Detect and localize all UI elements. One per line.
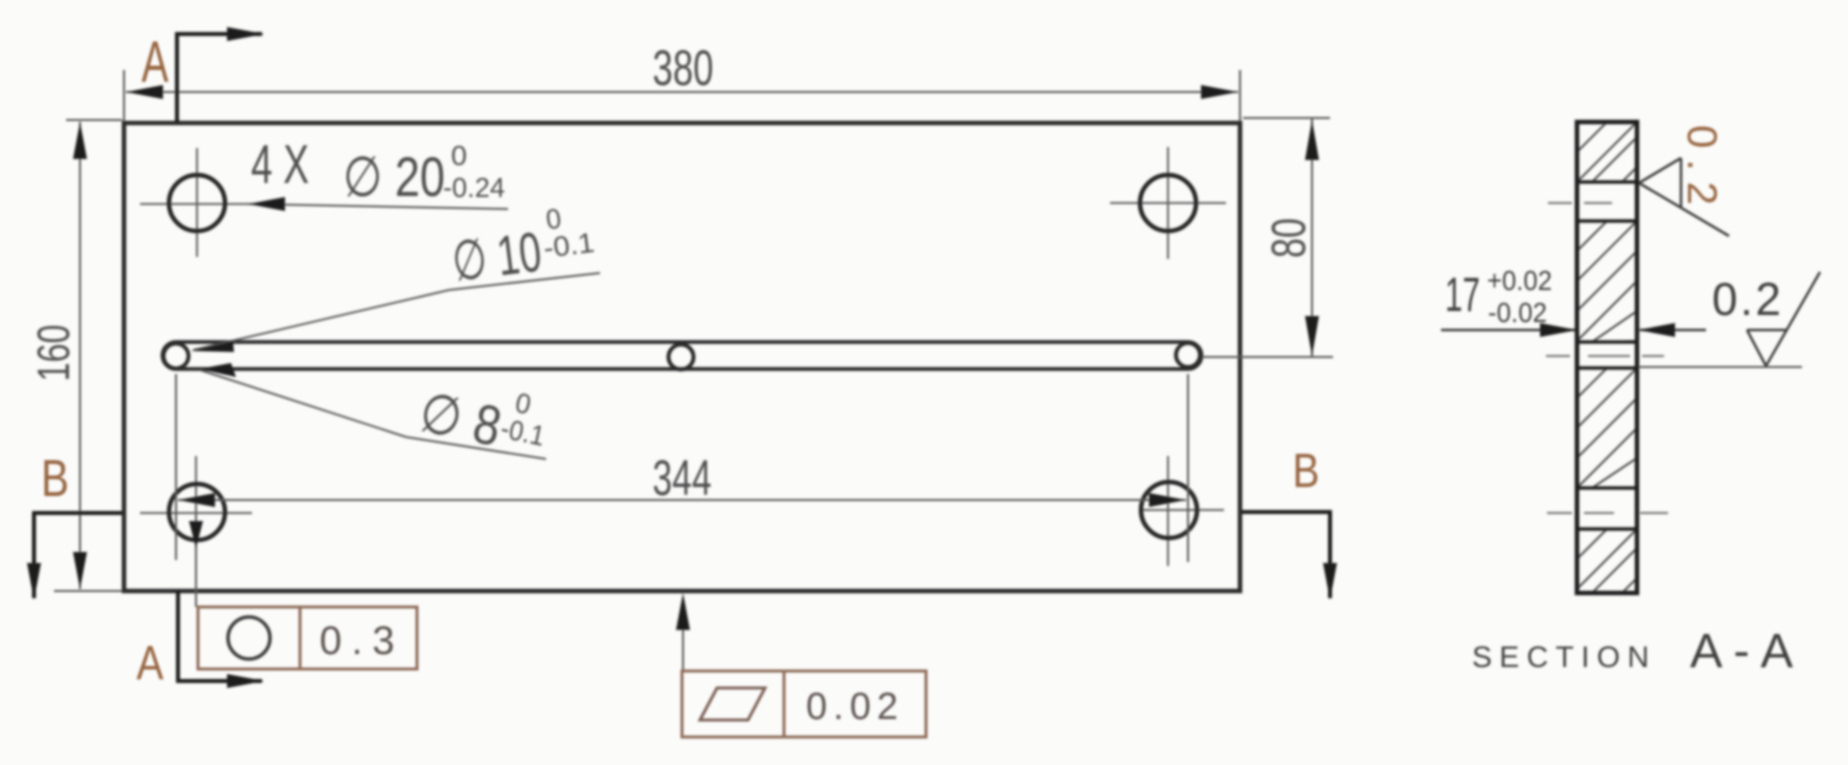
dimension 344 arrow left	[178, 493, 215, 507]
section bar hatch second block	[1577, 221, 1637, 342]
hole bottom-right centerlines	[1140, 456, 1224, 566]
dimension 160 line	[79, 122, 81, 589]
dimension 380 arrow right	[1201, 85, 1238, 99]
dimension 344 extension left	[175, 374, 177, 560]
dimension 344 line	[178, 499, 1186, 501]
section cut A top arrow	[227, 27, 264, 41]
svg-text:∅ 10: ∅ 10	[449, 220, 545, 293]
leader dia10 line	[193, 290, 449, 350]
leader dia10 underline	[449, 273, 600, 290]
plate outline	[124, 123, 1240, 591]
svg-text:-0.02: -0.02	[1488, 297, 1547, 328]
flatness tolerance frame	[682, 671, 926, 737]
svg-text:+0.02: +0.02	[1487, 265, 1552, 296]
flatness frame leader line	[682, 598, 684, 671]
section centerline slot	[1546, 355, 1664, 357]
dimension 17 line left	[1441, 329, 1575, 332]
svg-text:-0.24: -0.24	[443, 172, 505, 203]
section cut B right line	[1242, 512, 1330, 598]
section cut A top line	[177, 34, 262, 122]
leader dia8 underline	[406, 437, 546, 459]
section cut B left line	[34, 513, 122, 598]
roundness frame leader arrow	[189, 521, 203, 548]
section centerline top hole	[1548, 202, 1612, 204]
roundness tolerance frame	[198, 607, 417, 669]
dimension 380 extension line right	[1239, 70, 1241, 121]
svg-text:-0.1: -0.1	[542, 227, 596, 264]
flatness symbol parallelogram	[700, 688, 765, 720]
section bar hole band top edges	[1577, 180, 1637, 184]
hole bottom-left	[169, 484, 225, 540]
svg-text:A - A: A - A	[1690, 625, 1793, 678]
svg-text:380: 380	[653, 40, 714, 96]
dimension 160 extension top	[66, 119, 122, 121]
section cut A bottom arrow	[227, 674, 264, 688]
hole top-left centerlines	[140, 148, 256, 257]
hole top-left	[169, 175, 225, 231]
slot left end hole	[164, 344, 189, 369]
dimension 17 arrow left	[1540, 323, 1577, 337]
svg-text:0.3: 0.3	[320, 619, 395, 663]
dimension 17 line right	[1640, 329, 1706, 332]
dimension 160 arrow top	[73, 122, 87, 159]
dimension 380 arrow left	[126, 85, 163, 99]
slot outline	[163, 342, 1202, 369]
svg-text:A: A	[137, 637, 164, 690]
section bar hole band bottom edges	[1577, 486, 1637, 490]
svg-text:B: B	[41, 450, 69, 508]
label dia10	[447, 199, 598, 293]
svg-text:0: 0	[451, 140, 467, 171]
section bar slot band edges	[1577, 340, 1637, 344]
roughness symbol right	[1747, 272, 1820, 366]
svg-text:∅ 8: ∅ 8	[414, 380, 506, 458]
dimension 160 arrow bottom	[73, 552, 87, 589]
section bar hatch upper block	[1577, 122, 1637, 182]
section centerline bottom hole	[1547, 512, 1668, 514]
section bar hatch bottom block	[1577, 529, 1637, 593]
roundness frame leader line	[195, 514, 197, 607]
dimension 17 arrow right	[1638, 323, 1675, 337]
leader dia8 line	[200, 370, 406, 437]
dimension 80 extension top	[1243, 117, 1330, 119]
section surface extension line right	[1639, 366, 1802, 368]
slot middle hole	[669, 345, 694, 370]
dimension 380 line	[126, 91, 1238, 93]
leader 4X dia20 line	[248, 204, 508, 209]
section cut B left arrow	[27, 563, 41, 600]
leader dia8 arrow	[199, 363, 236, 377]
label dia8	[414, 368, 553, 468]
svg-text:SECTION: SECTION	[1472, 641, 1649, 674]
dimension 344 extension right	[1187, 374, 1189, 562]
dimension 80 line	[1311, 119, 1313, 356]
leader dia10 arrow	[191, 341, 234, 352]
svg-text:0.2: 0.2	[1679, 125, 1726, 205]
hole top-right	[1140, 175, 1196, 231]
hole bottom-right	[1141, 482, 1197, 538]
svg-text:0.2: 0.2	[1712, 273, 1781, 325]
dimension 380 extension line left	[123, 70, 125, 121]
section cut A bottom line	[178, 591, 262, 681]
svg-text:17: 17	[1445, 269, 1480, 322]
flatness frame leader arrow	[676, 593, 690, 630]
dimension 344 arrow right	[1149, 493, 1186, 507]
svg-text:80: 80	[1263, 218, 1316, 258]
section cut B right arrow	[1323, 563, 1337, 600]
leader 4X dia20 arrow	[248, 197, 285, 211]
roundness symbol	[228, 617, 270, 659]
svg-text:-0.1: -0.1	[498, 412, 547, 451]
slot right end hole	[1176, 343, 1200, 367]
hole bottom-left centerlines	[140, 456, 252, 566]
section bar outline	[1577, 122, 1637, 593]
svg-text:B: B	[1293, 445, 1320, 498]
svg-text:A: A	[142, 30, 169, 95]
section bar hatch third block	[1577, 368, 1637, 488]
svg-text:344: 344	[653, 450, 712, 506]
svg-text:4 X: 4 X	[251, 133, 309, 195]
svg-text:160: 160	[28, 325, 79, 382]
dimension 80 arrow bottom	[1305, 316, 1319, 356]
hole top-right centerlines	[1110, 147, 1226, 259]
roughness symbol top (rotated, on hole surface)	[1639, 158, 1729, 236]
dimension 80 extension bottom	[1202, 356, 1333, 358]
svg-text:∅ 20: ∅ 20	[343, 145, 445, 208]
dimension 160 extension bottom	[54, 590, 122, 592]
svg-text:0.02: 0.02	[806, 686, 898, 728]
dimension 80 arrow top	[1305, 120, 1319, 160]
